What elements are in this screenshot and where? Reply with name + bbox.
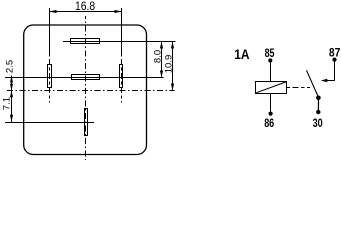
pin 86 terminal [269,112,273,116]
svg-text:16.8: 16.8 [75,0,95,13]
dimension 7.1 line [11,91,13,123]
dimension 10.9 bottom arrow [171,84,174,91]
wire pin 87 down and left [326,60,335,81]
svg-text:10.9: 10.9 [163,55,174,74]
top slot centerline / extension line to right dims [63,41,176,43]
top pin slot [71,39,100,44]
dimension 2.5 top arrow [10,76,13,83]
svg-text:2.5: 2.5 [4,60,15,73]
dimension 10.9 line [172,42,174,91]
dimension 8.0 line [161,42,163,78]
pin 87 terminal [332,58,336,62]
svg-text:1A: 1A [234,46,249,62]
left pin centerline (dash-dot part) [49,54,51,103]
wire pin 85 to coil [270,61,272,82]
middle slot centerline / extension line [5,77,164,79]
dimension 16.8 right arrow [115,10,122,13]
dimension 2.5 line [11,76,13,91]
right pin centerline (solid extension part) [121,8,123,54]
relay body outline [24,25,147,155]
vertical centerline of body [85,16,87,160]
relay coil K1 [256,82,287,94]
middle pin slot [72,75,100,80]
svg-text:30: 30 [313,116,323,130]
svg-text:8.0: 8.0 [152,50,163,63]
pin 30 terminal [316,110,320,114]
bottom pin slot [85,109,88,136]
svg-text:87: 87 [329,45,341,59]
dimension 7.1 bottom arrow [10,115,13,122]
dimension 10.9 top arrow [171,42,174,49]
pin 85 terminal [268,58,272,62]
arrowhead toward armature [321,79,328,83]
dimension 7.1 top arrow [10,91,13,98]
svg-text:85: 85 [265,46,275,60]
left pin centerline (solid extension part) [49,8,51,54]
dimension 8.0 top arrow [160,42,163,49]
dimension 2.5 bottom arrow [10,84,13,91]
dimension 16.8 left arrow [50,10,57,13]
dimension 8.0 bottom arrow [160,71,163,78]
svg-text:86: 86 [264,116,274,130]
bottom slot centerline / extension line [5,122,94,124]
armature movable contact [307,70,319,97]
wire pivot to pin 30 [317,98,319,113]
wire coil to pin 86 [270,94,272,114]
right pin centerline (dash-dot part) [121,54,123,103]
svg-text:7.1: 7.1 [2,97,13,110]
armature pivot dot [316,96,321,101]
relay coil diagonal [256,82,286,93]
dimension 16.8 line [50,11,122,13]
right pin slot [120,65,123,88]
left pin slot [48,65,52,88]
horizontal centerline of body [7,90,175,92]
dashed link coil to armature [287,87,311,89]
